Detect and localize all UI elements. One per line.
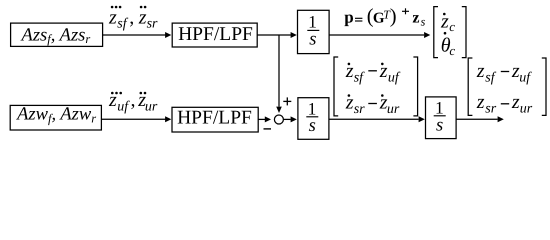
svg-text:Azwf, Azwr: Azwf, Azwr [15,105,96,126]
svg-text:z: z [476,60,485,82]
block Azw (unsprung accelerometer input) [10,105,101,130]
integrator 1/s (top) [298,10,330,53]
svg-text:): ) [390,5,397,27]
svg-text:p: p [344,8,353,27]
svg-text:c: c [449,43,455,58]
integrator 1/s (bottom right) [426,97,457,139]
wire from HPF/LPF to top integrator [257,32,297,38]
svg-text:sr: sr [147,17,158,32]
svg-text:c: c [449,19,455,34]
svg-text:ur: ur [145,99,158,114]
svg-text:s: s [309,116,316,136]
wire from HPF/LPF to summing junction [258,116,271,122]
svg-text:1: 1 [435,97,444,117]
vector [zc-dot ; theta-c-dot] [434,7,466,58]
wire from Azs to HPF/LPF (top) [103,32,171,38]
summing junction circle [274,115,283,124]
svg-text:s: s [421,14,426,28]
svg-text:sr: sr [354,102,365,117]
svg-text:sr: sr [485,102,496,117]
wire from Azw to HPF/LPF (bottom) [101,116,171,122]
svg-text:z: z [412,10,419,27]
block HPF/LPF (bottom) [172,107,258,132]
plus sign at summing junction [283,97,291,105]
label p = (G^T)+ zs [344,5,425,28]
svg-text:,: , [129,6,134,28]
integrator 1/s (bottom left) [298,98,329,140]
svg-text:s: s [309,30,316,50]
svg-text:ur: ur [387,102,400,117]
node branch wire down to summing junction [276,35,282,113]
signal label z(3dots)uf , z(2dots)ur [108,89,158,115]
svg-text:z: z [476,91,485,113]
wire from top integrator to vector zc [329,32,430,38]
svg-text:ur: ur [520,102,533,117]
minus sign at summing junction [264,128,272,130]
svg-text:HPF/LPF: HPF/LPF [177,108,252,129]
svg-text:z: z [511,91,520,113]
svg-text:s: s [436,115,443,135]
vector [zsf-dot minus zuf-dot ; zsr-dot minus zur-dot] [334,57,418,117]
svg-text:HPF/LPF: HPF/LPF [178,24,253,45]
svg-text:,: , [131,89,136,111]
wire from summing junction to bottom-left integrator [283,116,296,122]
wire from bottom-left integrator to bottom-right integrator [329,116,425,122]
block Azs (sprung accelerometer input) [11,23,103,46]
svg-text:Azsf, Azsr: Azsf, Azsr [20,25,91,46]
signal label z(3dots)sf , z(2dots)sr [108,6,158,32]
svg-text:z: z [108,6,117,28]
vector [zsf minus zuf ; zsr minus zur] output [468,58,546,117]
svg-text:1: 1 [308,12,317,32]
block HPF/LPF (top) [172,23,257,47]
output wire [456,116,504,122]
svg-text:z: z [138,6,147,28]
